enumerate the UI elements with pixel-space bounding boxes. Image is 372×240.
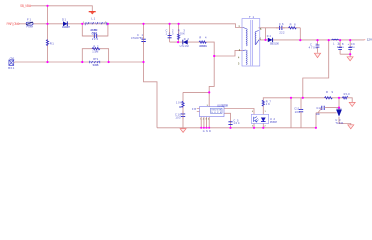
svg-text:L1: L1 <box>91 17 95 21</box>
wire clamp bottom row to drain <box>170 42 243 56</box>
svg-text:BK1: BK1 <box>8 66 15 70</box>
svg-text:100u: 100u <box>348 45 355 49</box>
feedback cap C11 <box>294 98 303 128</box>
transformer T1 <box>238 15 262 66</box>
fuse F1 <box>26 18 33 29</box>
svg-text:F1: F1 <box>27 18 31 22</box>
IC cap C5 <box>228 118 240 125</box>
svg-text:FB: FB <box>192 108 196 111</box>
svg-text:104: 104 <box>295 110 301 114</box>
svg-text:224: 224 <box>92 37 99 41</box>
svg-text:1: 1 <box>265 111 267 113</box>
wire opto bottom pins <box>254 123 263 127</box>
svg-text:104: 104 <box>233 121 240 125</box>
svg-text:103: 103 <box>175 116 181 120</box>
wire 12V feedback tap <box>303 40 329 98</box>
TL431 U3 <box>335 109 344 125</box>
svg-text:R9: R9 <box>326 90 334 94</box>
wire output rail <box>259 39 365 41</box>
svg-text:1.5M: 1.5M <box>92 50 98 54</box>
output diode D4 <box>267 35 280 46</box>
svg-text:1N4007: 1N4007 <box>62 25 70 29</box>
clamp resistor R3 <box>177 29 185 40</box>
wire vertical from top rail to line1 <box>47 6 49 24</box>
svg-text:222: 222 <box>279 30 285 34</box>
output cap C9 <box>348 42 356 49</box>
svg-text:2: 2 <box>264 126 266 128</box>
clamp resistor R4 <box>199 35 208 48</box>
wire output cap1 <box>317 40 319 53</box>
svg-text:10n: 10n <box>316 112 321 116</box>
capacitor CX1 on loop A <box>82 32 108 41</box>
wire drain down to IC <box>209 56 214 107</box>
node SB_VB port label <box>20 4 31 8</box>
output cap C8 <box>337 42 345 49</box>
svg-text:PWR_ON: PWR_ON <box>7 22 19 26</box>
thermistor RT1 on line2 <box>90 57 100 67</box>
opto feedback resistor R7 <box>262 99 271 106</box>
svg-text:330K/1W: 330K/1W <box>199 44 208 48</box>
resistor R10 <box>342 92 350 99</box>
svg-text:Fuse: Fuse <box>27 24 34 28</box>
common mode choke L1 body <box>83 17 107 35</box>
svg-text:+: + <box>364 38 366 42</box>
svg-text:SB3100: SB3100 <box>270 41 280 45</box>
svg-text:PC817: PC817 <box>270 120 278 124</box>
snubber capacitor C6 <box>276 22 285 34</box>
svg-text:R1: R1 <box>50 41 54 45</box>
svg-text:SCK05: SCK05 <box>93 63 100 67</box>
svg-text:12V: 12V <box>367 38 372 42</box>
wire TL431 ref network <box>316 108 339 128</box>
wire line1 AC <box>19 24 244 28</box>
wire bottom ground rail <box>157 127 316 129</box>
svg-text:100K: 100K <box>178 31 185 35</box>
wire opto feedback leg <box>263 98 352 115</box>
node PWR_ON port label <box>7 22 20 26</box>
svg-text:1 2 3 4: 1 2 3 4 <box>200 119 210 121</box>
gnd arrow right bottom <box>348 125 354 129</box>
svg-text:US1M: US1M <box>180 44 189 48</box>
svg-text:5: 5 <box>238 63 240 66</box>
gnd arrow right top <box>349 102 355 106</box>
svg-text:100u: 100u <box>337 45 345 49</box>
clamp diode D2 <box>180 37 190 48</box>
resistor R2 on loop B <box>92 45 100 54</box>
svg-text:470u: 470u <box>309 45 318 49</box>
capacitor C1 on 143.5 drop <box>131 33 146 44</box>
gnd arrow left <box>180 129 186 133</box>
wire TL431 cathode <box>338 98 340 110</box>
svg-text:R4: R4 <box>199 35 207 39</box>
wire sense divider top <box>183 92 209 127</box>
wire TL431 anode to gnd <box>339 117 351 125</box>
wire IC pin to opto top <box>224 109 254 115</box>
gnd arrow at C7 <box>314 53 320 57</box>
snubber resistor R8 <box>289 23 297 29</box>
svg-text:D1: D1 <box>62 17 66 21</box>
output cap C7 <box>309 43 320 50</box>
wire X-cap C down and step to bottom rail <box>144 24 158 128</box>
node +12V label <box>364 38 372 42</box>
wire feedback gnd drop <box>290 98 292 128</box>
sense resistor R6 <box>176 100 184 108</box>
svg-text:GND: GND <box>203 130 211 133</box>
controller IC U1 <box>192 103 229 133</box>
wire IC pin2 to cap <box>224 113 231 128</box>
svg-text:TL431: TL431 <box>335 121 344 125</box>
connector CN1 left <box>8 56 15 69</box>
wire clamp legs <box>170 24 179 42</box>
svg-text:R10: R10 <box>344 92 351 96</box>
wire line2 AC <box>15 61 144 63</box>
wire output caps pair <box>340 40 350 57</box>
wire loop X-cap A <box>82 24 108 36</box>
diode D1 <box>62 17 70 28</box>
svg-text:10K: 10K <box>176 100 182 104</box>
svg-text:R8: R8 <box>290 23 297 27</box>
svg-text:U1 OB2538: U1 OB2538 <box>217 103 229 107</box>
clamp cap C2 <box>166 29 175 38</box>
svg-text:1K: 1K <box>266 102 270 106</box>
wire top rail <box>31 6 93 11</box>
optocoupler U2 <box>251 111 277 128</box>
wire vertical line1 to line2 via R <box>47 24 49 62</box>
divider resistor R9 <box>325 90 334 99</box>
wire IC bottom pins <box>201 117 209 128</box>
svg-text:4: 4 <box>238 57 240 60</box>
svg-text:D4: D4 <box>267 35 272 38</box>
power port arrow P1 <box>89 11 96 14</box>
sense cap C4 <box>175 111 185 120</box>
svg-text:8: 8 <box>260 28 262 31</box>
svg-text:103: 103 <box>166 31 175 35</box>
inductor L2 on rail <box>332 39 340 45</box>
TL431 comp cap C12 <box>316 106 326 116</box>
svg-text:RT1: RT1 <box>93 57 99 61</box>
wire snubber loop <box>259 28 301 40</box>
gnd arrow at C8 C9 <box>347 57 353 61</box>
resistor R1 vertical <box>46 40 54 46</box>
svg-text:SB_VB: SB_VB <box>20 4 30 8</box>
wire loop resistor B <box>82 49 108 62</box>
